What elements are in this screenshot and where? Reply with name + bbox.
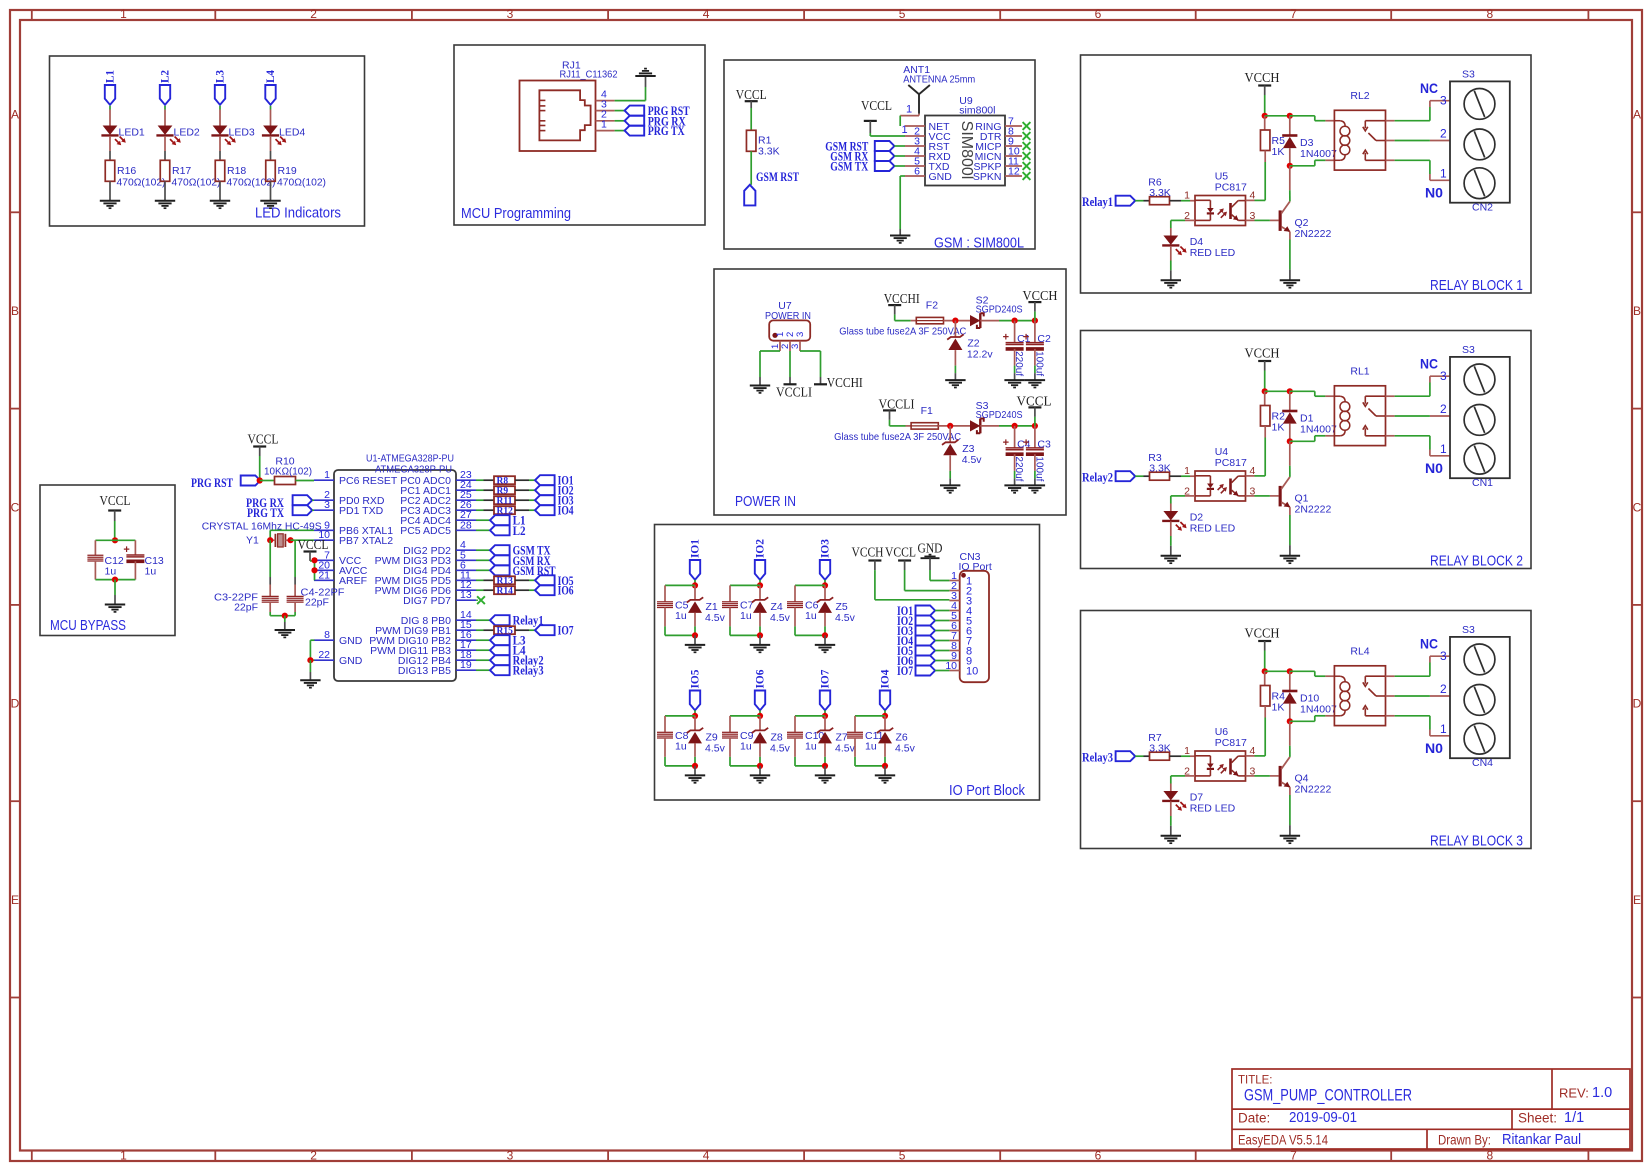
wire opto pin3 to Q1 base [1246,495,1279,497]
RJ1 pin 4 wire to ground [596,76,646,101]
svg-text:REV:: REV: [1559,1086,1589,1101]
net flag L4 [263,70,277,105]
LED D2 RED LED [1162,511,1235,535]
wire opto pin2 to LED D2 [1171,496,1195,511]
ground under R18 [210,201,230,208]
svg-text:3: 3 [1440,649,1447,663]
ground under D7 [1161,836,1181,843]
net port GSM RX at U9 [830,150,905,164]
net flag L2 [158,70,172,105]
svg-text:Y1: Y1 [246,535,259,547]
LED D7 RED LED [1162,791,1235,815]
svg-text:D: D [11,697,20,711]
junction bottom IO3 [795,626,828,638]
ground under C2 [1025,380,1045,387]
svg-text:5: 5 [899,1148,906,1162]
svg-text:1.0: 1.0 [1592,1085,1612,1101]
svg-text:1N4007: 1N4007 [1300,148,1337,160]
svg-text:S3: S3 [1462,344,1475,356]
svg-text:4.5v: 4.5v [770,612,791,624]
svg-text:3.3K: 3.3K [1149,187,1171,199]
ground under Z9 [685,775,705,782]
capacitor C12 [87,540,124,579]
junction collector Q2 [1287,163,1293,169]
screw terminal S3 CN4 [1450,624,1510,769]
svg-text:4.5v: 4.5v [770,742,791,754]
wire crystal right to C4 [294,540,296,596]
wire D4 to ground [1170,246,1172,280]
resistor R17 [160,160,220,188]
svg-text:B: B [1633,304,1641,318]
chip U1 ATMEGA328P-PU [314,453,476,682]
wire R18 to ground [219,181,221,200]
wire to relay coil bottom [1290,160,1335,166]
svg-text:LED4: LED4 [279,127,305,139]
wire IO5 flag to junction [694,710,696,716]
wire R1 to GSM RST flag [751,151,799,185]
svg-text:2: 2 [1440,402,1447,416]
wire diode to output junctions [980,320,1035,322]
no-connect X on U9 pin 7 [1023,122,1031,130]
svg-text:RL2: RL2 [1350,90,1369,102]
svg-text:1: 1 [1440,722,1447,736]
junction crystal left [267,537,273,543]
junction bottom IO2 [730,626,763,638]
net port IO7 [535,624,574,638]
wire LED3 to R18 [219,136,221,160]
svg-text:+: + [1003,332,1009,344]
LED LED4 [262,126,306,146]
wire Q2 collector [1289,166,1291,202]
wire XTAL1 to crystal [270,530,314,540]
svg-text:PC5 ADC5: PC5 ADC5 [400,525,451,537]
power flag VCCHI down [814,375,863,390]
junction top IO7 [795,713,828,719]
MCU BYPASS block title [50,618,126,634]
junction bottom IO5 [665,757,698,769]
junction diode D10 [1287,668,1293,674]
svg-text:GSM RST: GSM RST [756,170,800,184]
label pin2 CN2 [1440,127,1447,141]
svg-text:GND: GND [918,541,943,556]
svg-text:470Ω(102): 470Ω(102) [277,177,326,189]
svg-text:VCCH: VCCH [852,545,884,560]
ground under U9 [890,236,910,243]
svg-text:CN4: CN4 [1472,757,1493,769]
diode D10 1N4007 [1282,671,1337,721]
junction PRG RST / VCCL [257,477,263,483]
MCU Programming block title [461,206,571,222]
svg-text:CN2: CN2 [1472,202,1493,214]
svg-text:DIG13 PB5: DIG13 PB5 [398,665,451,677]
svg-text:D: D [1633,697,1642,711]
svg-text:1u: 1u [865,740,877,752]
svg-text:NC: NC [1420,356,1438,372]
wire Q2 emitter to ground [1289,232,1291,281]
title block texts [1238,1075,1612,1149]
svg-text:GND: GND [929,171,953,183]
svg-text:Drawn By:: Drawn By: [1438,1133,1491,1148]
wire XTAL2 to crystal [291,539,315,541]
svg-text:4.5v: 4.5v [705,612,726,624]
wire opto pin4 to R5 [1246,199,1266,201]
net port GSM TX at U9 [830,160,905,174]
net port L1 [476,514,526,528]
net port Relay2 [476,654,544,668]
wire L3 to LED3 [219,106,221,126]
resistor R19 [266,160,326,188]
wire Relay2 to R3 [1135,475,1149,477]
svg-text:5: 5 [899,7,906,21]
net flag L1 [103,70,117,105]
svg-text:1: 1 [120,1148,127,1162]
svg-text:R17: R17 [172,165,191,177]
junction bottom IO1 [665,626,698,638]
IO Port Block border [655,525,1040,801]
title block [1232,1069,1630,1149]
net port L3 [476,634,526,648]
svg-text:R19: R19 [278,165,297,177]
svg-text:2: 2 [310,7,317,21]
svg-text:RELAY BLOCK 2: RELAY BLOCK 2 [1430,553,1523,570]
junction AVCC pin20 [311,567,317,573]
svg-text:470Ω(102): 470Ω(102) [227,177,276,189]
resistor R4 1K [1260,671,1285,756]
svg-text:+: + [1023,332,1029,344]
junction VCCH R2 [1262,388,1290,394]
net port IO3 [535,494,574,508]
capacitor C11 [847,716,884,757]
net flag L3 [213,70,227,105]
zener Z5 [817,585,856,626]
junction at C2 [1032,318,1038,324]
wire IO2 flag to junction [759,580,761,586]
power VCCL at CN3 [885,545,949,591]
wire IO1 flag to junction [694,580,696,586]
resistor R16 [105,160,165,188]
svg-text:2N2222: 2N2222 [1295,228,1332,240]
zener Z2 [947,321,993,361]
capacitor C3 [1023,426,1051,482]
svg-text:N0: N0 [1425,740,1443,756]
power VCCL in GSM block [736,87,767,130]
wire relay NO to terminal [1386,716,1451,736]
wire D2 to ground [1170,521,1172,555]
wire LED2 to R17 [164,136,166,160]
relay RL1 [1334,366,1385,446]
wire LED1 to R16 [109,136,111,160]
svg-text:PC6 RESET: PC6 RESET [339,475,398,487]
svg-text:POWER IN: POWER IN [735,494,796,510]
svg-text:VCCHI: VCCHI [827,375,863,390]
zener Z9 [687,716,726,757]
svg-text:C2: C2 [1037,333,1051,345]
no-connect X on U9 pin 12 [1023,172,1031,180]
svg-text:1u: 1u [740,610,752,622]
ground under R19 [260,201,280,208]
svg-text:C: C [11,500,20,514]
svg-text:IO6: IO6 [558,584,574,598]
wire L2 to LED2 [164,106,166,126]
wire U7 pin1 to ground [760,351,780,386]
svg-text:1u: 1u [740,740,752,752]
svg-text:EasyEDA V5.5.14: EasyEDA V5.5.14 [1238,1133,1328,1148]
net port GSM TX [476,544,551,558]
net port PRG RX at U1 [246,495,314,510]
svg-text:LED1: LED1 [119,127,145,139]
svg-text:2: 2 [1440,127,1447,141]
junction at zener Z3 [947,423,953,429]
svg-text:GND: GND [339,655,363,667]
relay RL2 [1334,90,1385,170]
svg-text:4.5v: 4.5v [835,612,856,624]
svg-text:GSM_PUMP_CONTROLLER: GSM_PUMP_CONTROLLER [1244,1086,1412,1105]
wire Relay3 to R7 [1135,755,1149,757]
capacitor C2 [1023,321,1051,377]
svg-text:12: 12 [1008,166,1020,178]
wire opto pin4 to R2 [1246,475,1266,477]
junction VCCH R5 [1262,113,1290,119]
svg-text:L3: L3 [213,70,227,83]
svg-text:Relay3: Relay3 [513,664,544,678]
net port IO5 at CN3 [897,644,949,658]
svg-text:4.5v: 4.5v [895,742,916,754]
RELAY BLOCK 1 title [1430,277,1523,294]
wire U1 GND pins to ground [307,640,314,680]
svg-text:1u: 1u [675,740,687,752]
resistor R13 [476,576,535,586]
connector CN3 IO Port [945,551,992,682]
zener Z7 [817,716,856,757]
no-connect X on U9 pin 8 [1023,132,1031,140]
svg-text:R8: R8 [497,476,509,486]
svg-text:2N2222: 2N2222 [1295,784,1332,796]
GSM block border [724,60,1035,249]
net flag IO4 [878,670,892,711]
wire IO3 to ground [824,635,826,645]
wire opto pin3 to Q2 base [1246,219,1279,221]
svg-text:RJ11_C11362: RJ11_C11362 [560,69,618,81]
IO Port Block title [949,783,1026,799]
net port Relay3 [1082,751,1135,765]
wire Q4 collector [1289,721,1291,757]
net port IO6 [535,584,574,598]
resistor R7 3.3K [1148,732,1195,760]
svg-text:1: 1 [1184,745,1190,757]
svg-text:7: 7 [1290,1148,1297,1162]
wire ANT1 to U9 NET pin [900,104,919,137]
svg-text:VCCH: VCCH [1023,288,1058,303]
power VCCL above R10 [248,432,279,481]
svg-text:ATMEGA328P-PU: ATMEGA328P-PU [375,464,452,476]
svg-text:1: 1 [601,119,607,131]
svg-text:22: 22 [318,649,330,661]
net flag IO3 [818,539,832,580]
wire Relay1 to R6 [1135,200,1149,202]
ground under crystal caps [275,630,295,637]
ground under Z1 [685,645,705,652]
wire R17 to ground [164,181,166,200]
power flag VCCLI down [776,384,812,399]
svg-text:PB7 XTAL2: PB7 XTAL2 [339,535,393,547]
optocoupler U5 PC817 [1184,171,1255,226]
wire Q1 emitter to ground [1289,507,1291,556]
ground under Q1 [1280,556,1300,563]
wire fuse to junction [938,425,970,427]
svg-text:GSM : SIM800L: GSM : SIM800L [934,236,1024,252]
svg-text:1K: 1K [1272,146,1285,158]
svg-text:+: + [123,544,129,556]
svg-text:RED LED: RED LED [1190,523,1236,535]
svg-text:3.3K: 3.3K [1149,743,1171,755]
net port PRG TX at U1 [247,505,314,520]
no-connect X on U9 pin 11 [1023,162,1031,170]
POWER IN block title [735,494,796,510]
net port IO1 at CN3 [897,604,949,618]
ground under R16 [100,201,120,208]
svg-text:Relay2: Relay2 [1082,471,1113,485]
LED Indicators block title [255,206,341,222]
resistor R3 3.3K [1148,452,1195,480]
svg-text:R18: R18 [227,165,246,177]
wire to relay coil top [1290,116,1335,121]
junction bottom IO6 [730,757,763,769]
capacitor C1 [1003,321,1031,377]
svg-text:SGPD240S: SGPD240S [976,304,1023,316]
wire U7 pin2 to VCCLI [789,351,791,384]
ground under Z3 [940,485,960,492]
wire D7 to ground [1170,801,1172,835]
svg-text:Glass tube fuse2A 3F 250VAC: Glass tube fuse2A 3F 250VAC [839,326,966,338]
svg-text:1N4007: 1N4007 [1300,424,1337,436]
svg-text:A: A [11,108,19,122]
relay RL4 [1334,646,1385,726]
svg-text:1u: 1u [105,566,117,578]
svg-text:3: 3 [507,7,514,21]
diode S3 SGPD240S [970,400,1023,433]
LED LED3 [211,126,255,146]
svg-text:IO3: IO3 [818,539,832,558]
ground under Z8 [750,775,770,782]
svg-text:1: 1 [1440,442,1447,456]
junction top of bypass caps [95,537,135,543]
wire IO7 flag to junction [824,710,826,716]
svg-text:VCCH: VCCH [1245,346,1280,361]
diode D3 1N4007 [1282,116,1337,166]
svg-text:sim800l: sim800l [959,105,995,117]
svg-text:1u: 1u [805,740,817,752]
svg-text:VCCL: VCCL [298,537,329,552]
junction at C3 [1032,423,1038,429]
svg-text:3.3K: 3.3K [1149,463,1171,475]
resistor R10 [260,456,314,485]
svg-text:6: 6 [1095,7,1102,21]
junction top IO4 [855,713,888,719]
ground under Z6 [875,775,895,782]
wire relay COM to terminal [1386,695,1451,697]
wire L1 to LED1 [109,106,111,126]
label NC pin3 CN1 [1420,356,1447,384]
svg-text:470Ω(102): 470Ω(102) [172,177,221,189]
svg-text:LED2: LED2 [174,127,200,139]
RJ1 pin 1 wire [596,119,625,131]
net port IO4 [535,504,574,518]
net port PRG TX at RJ1 [625,124,685,138]
capacitor C4 [1003,426,1031,482]
wire to relay coil top [1290,391,1335,396]
wire C2 to ground [1034,349,1036,380]
svg-text:VCCL: VCCL [100,493,131,508]
net port Relay1 [1082,195,1135,209]
svg-text:8: 8 [1486,7,1493,21]
svg-text:6: 6 [914,166,920,178]
capacitor C10 [787,716,824,757]
svg-text:VCCLI: VCCLI [879,396,915,411]
svg-text:ANTENNA 25mm: ANTENNA 25mm [903,74,975,86]
label NC pin3 CN4 [1420,636,1447,664]
svg-text:Ritankar Paul: Ritankar Paul [1502,1132,1581,1148]
wire IO7 to ground [824,766,826,776]
net flag IO7 [818,670,832,711]
svg-text:2: 2 [310,1148,317,1162]
svg-text:10: 10 [966,666,978,678]
ground MCU BYPASS [105,605,125,612]
label N0 pin1 CN1 [1425,442,1447,476]
svg-text:10KΩ(102): 10KΩ(102) [264,466,312,478]
power VCCH at CN3 [852,545,950,600]
wire caps to ground [270,613,295,630]
net port IO6 at CN3 [897,654,949,668]
net port L2 [476,524,526,538]
fuse F1 [834,405,961,443]
junction crystal right [287,537,293,543]
RELAY BLOCK 1 border [1081,55,1532,293]
wire U7 pin3 to VCCHI [800,351,821,384]
label pin2 CN4 [1440,682,1447,696]
MCU BYPASS block border [40,485,175,636]
ground under Z5 [815,645,835,652]
crystal Y1 [270,534,290,547]
wire relay NO to terminal [1386,160,1451,180]
svg-text:1u: 1u [805,610,817,622]
junction bottom IO4 [855,757,888,769]
svg-text:1/1: 1/1 [1564,1110,1584,1126]
svg-text:A: A [1633,108,1641,122]
net port IO7 at CN3 [897,664,949,678]
svg-text:IO6: IO6 [753,670,767,689]
svg-text:1: 1 [906,104,912,116]
capacitor C13 [123,540,164,579]
wire opto pin2 to LED D7 [1171,776,1195,791]
diode S2 SGPD240S [970,295,1023,328]
zener Z3 [942,426,982,466]
wire IO1 to ground [694,635,696,645]
label NC pin3 CN2 [1420,80,1447,108]
RELAY BLOCK 3 title [1430,833,1523,850]
wire Q1 collector [1289,441,1291,477]
net port Relay3 [476,664,544,678]
optocoupler U6 PC817 [1184,726,1255,781]
svg-text:6: 6 [1095,1148,1102,1162]
junction bottom of bypass caps [95,577,135,583]
connector RJ1 RJ11_C11362 [520,81,596,152]
power flag VCCL [1017,393,1052,426]
svg-text:IO5: IO5 [688,670,702,689]
svg-text:PC817: PC817 [1215,737,1247,749]
svg-text:1: 1 [1184,465,1190,477]
RJ1 pin 3 wire [596,99,625,111]
junction diode D1 [1287,388,1293,394]
